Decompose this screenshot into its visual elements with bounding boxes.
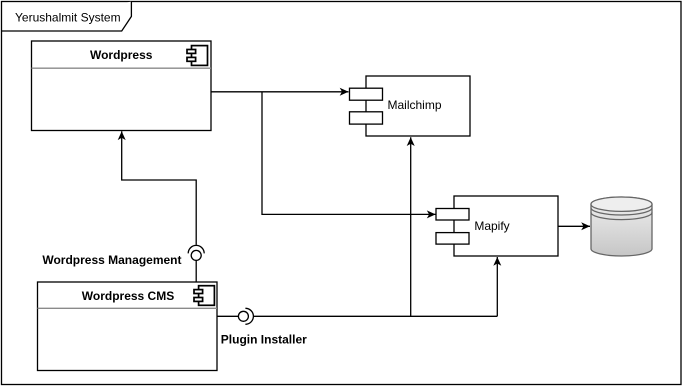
- Mailchimp top port: [350, 88, 383, 100]
- interface ball Wordpress Management: [191, 250, 201, 260]
- component Mailchimp: [366, 76, 470, 136]
- Wordpress title separator: [32, 67, 212, 69]
- Mapify top port: [436, 209, 469, 221]
- svg-text:Wordpress Management: Wordpress Management: [42, 253, 181, 267]
- frame label tab: [2, 2, 132, 32]
- component Wordpress: [32, 41, 212, 131]
- wire Mapify to database: [558, 225, 590, 227]
- interface socket Wordpress Management: [188, 245, 204, 253]
- component Wordpress CMS: [38, 282, 218, 371]
- Wordpress component icon: [187, 46, 208, 66]
- database cylinder: [591, 197, 652, 256]
- Wordpress CMS component icon: [194, 286, 214, 306]
- Mapify bottom port: [436, 233, 469, 245]
- Wordpress CMS title separator: [38, 307, 218, 309]
- interface ball Plugin Installer: [238, 311, 248, 321]
- wire ball to Wordpress CMS top: [195, 260, 197, 282]
- interface socket Plugin Installer: [245, 308, 253, 324]
- wire CMS interface up to Wordpress: [122, 131, 197, 245]
- svg-text:Mapify: Mapify: [474, 219, 509, 233]
- wire Plugin Installer socket to right: [254, 315, 498, 317]
- component Mapify: [454, 196, 558, 256]
- wire branch up to Mapify bottom: [496, 257, 498, 316]
- svg-text:Wordpress CMS: Wordpress CMS: [82, 289, 174, 303]
- svg-text:Wordpress: Wordpress: [90, 48, 153, 62]
- wire branch Wordpress to Mapify top port: [262, 92, 436, 215]
- wire Wordpress to Mailchimp top port: [211, 91, 349, 93]
- Mailchimp bottom port: [350, 112, 383, 124]
- svg-text:Plugin Installer: Plugin Installer: [221, 332, 307, 346]
- wire branch up to Mailchimp bottom: [410, 137, 412, 316]
- svg-text:Mailchimp: Mailchimp: [387, 98, 441, 112]
- wire Wordpress CMS right to Plugin Installer ball: [217, 315, 238, 317]
- svg-text:Yerushalmit System: Yerushalmit System: [15, 11, 121, 25]
